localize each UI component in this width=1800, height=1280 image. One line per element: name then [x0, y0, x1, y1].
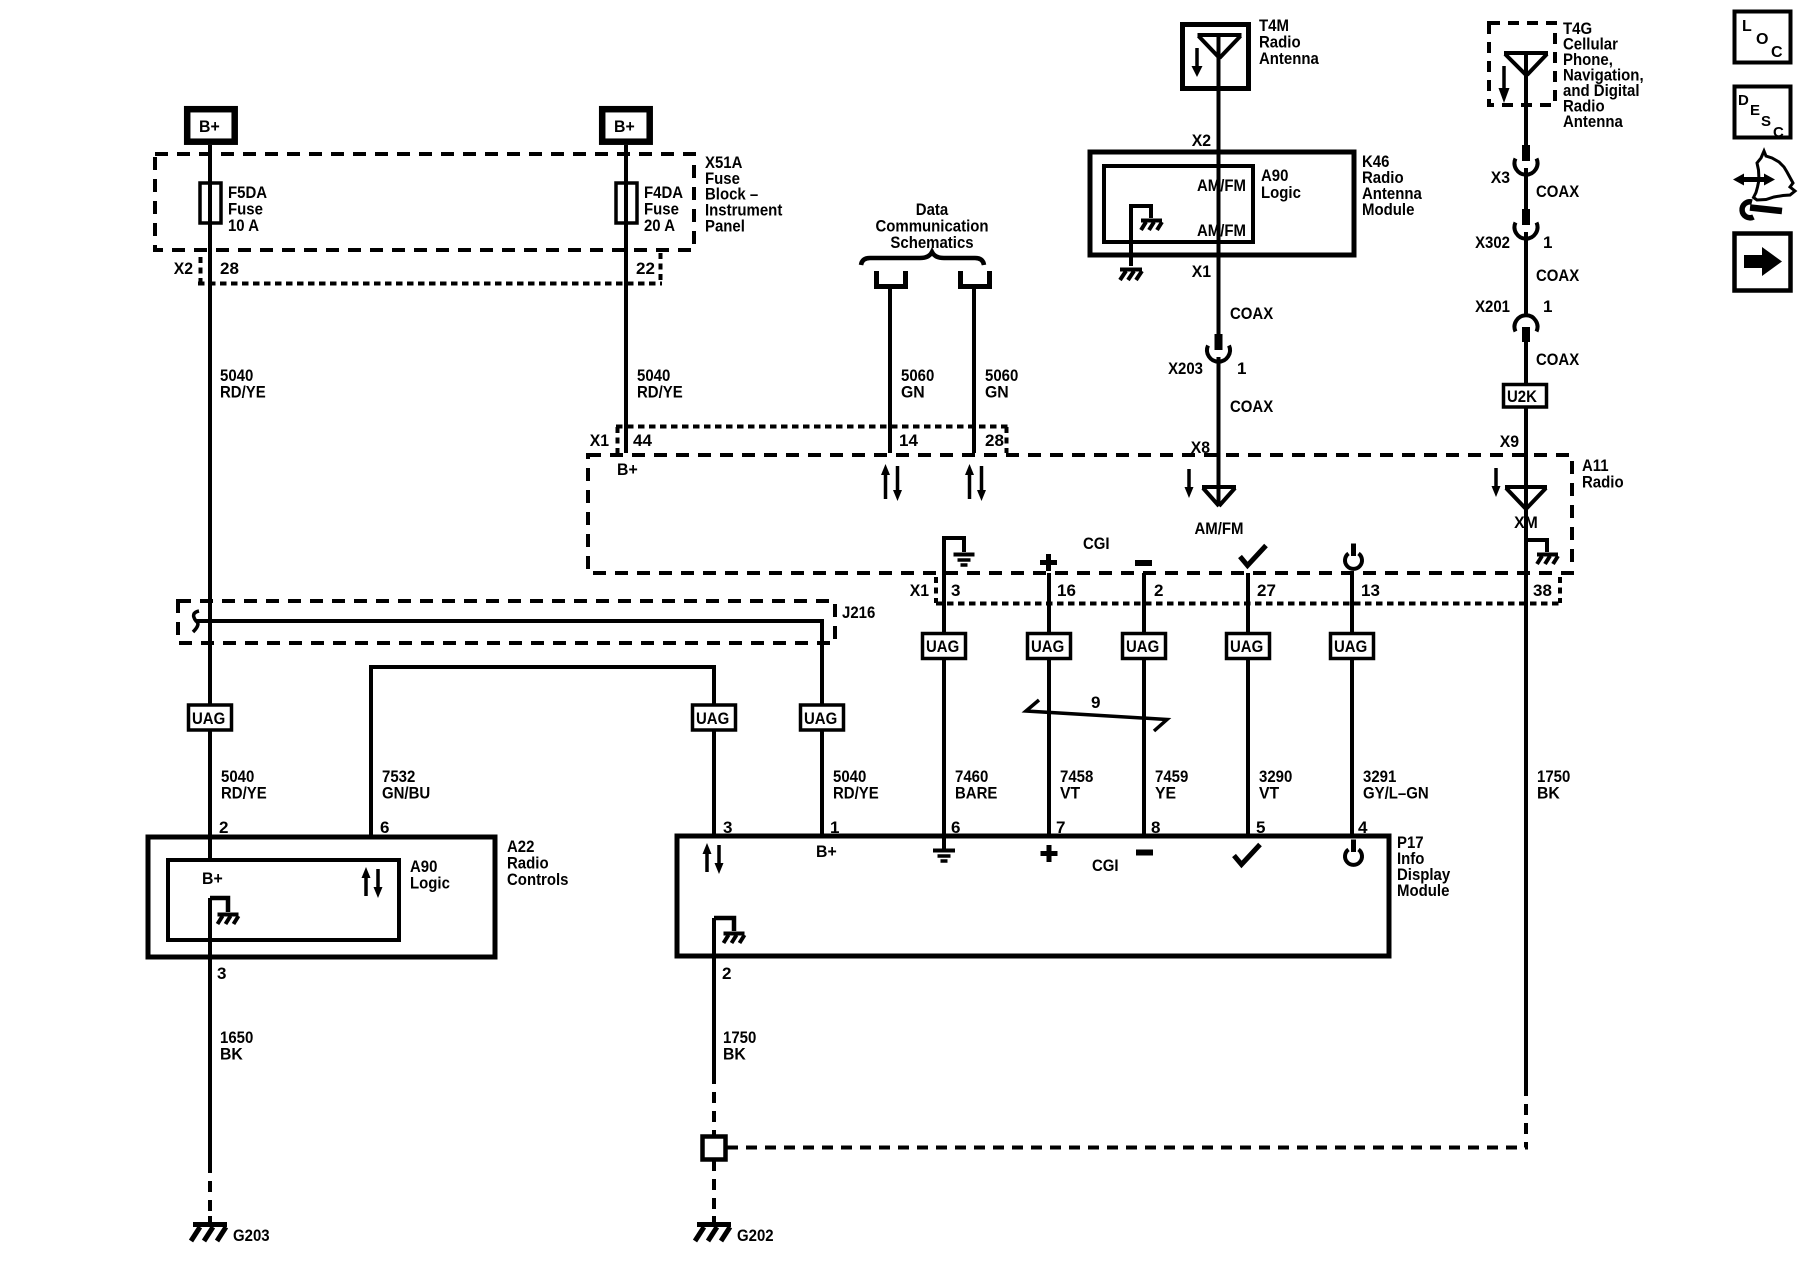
antenna T4M arrow [1192, 48, 1203, 77]
svg-text:4: 4 [1358, 818, 1368, 837]
connector X2 strip (fuse block bottom) [198, 253, 662, 284]
svg-text:XM: XM [1514, 513, 1538, 532]
svg-text:27: 27 [1257, 581, 1276, 600]
label connector X203 [1168, 359, 1246, 378]
connector X3 coax [1515, 145, 1538, 175]
wire 5040 RD/YE right (B+ to radio pin 44) [624, 145, 628, 453]
label AM/FM antenna [1195, 519, 1244, 538]
svg-text:Module: Module [1362, 200, 1414, 219]
label wire 1750 BK lower [723, 1028, 756, 1064]
label COAX lower (X203-X8) [1230, 397, 1274, 416]
svg-text:VT: VT [1060, 784, 1081, 803]
arrow inside P17 (bidirectional data) [703, 843, 724, 874]
svg-text:BK: BK [220, 1045, 243, 1064]
label B+ pin 44 [617, 460, 638, 479]
svg-text:8: 8 [1151, 818, 1160, 837]
antenna T4M box [1183, 25, 1249, 89]
power B+ terminal 1 [187, 109, 235, 142]
label wire 7459 YE [1155, 767, 1188, 803]
minus symbol radio CGI [1135, 560, 1152, 566]
ground symbol inside P17 pin 6 (earth style) [933, 836, 955, 861]
label G202 [737, 1226, 774, 1245]
svg-text:X203: X203 [1168, 359, 1203, 378]
svg-text:S: S [1761, 113, 1771, 130]
svg-text:28: 28 [220, 259, 239, 278]
svg-text:G203: G203 [233, 1226, 270, 1245]
connector UAG box wire to P17 pin 1 [801, 705, 844, 730]
wire 3291 GY/L-GN radio pin 13 to P17 pin 4 [1350, 573, 1354, 836]
svg-text:2: 2 [219, 818, 228, 837]
wire coax T4G antenna to U2K to radio X9 and 1750 BK to pin 38 [1524, 53, 1528, 1085]
svg-text:J216: J216 [842, 603, 875, 622]
svg-text:B+: B+ [614, 117, 635, 136]
label X1 K46 [1192, 262, 1211, 281]
label K46 module [1362, 152, 1422, 219]
svg-text:X2: X2 [174, 259, 193, 278]
svg-text:B+: B+ [199, 117, 220, 136]
svg-text:UAG: UAG [804, 709, 837, 728]
label connector X1 radio bottom pins [910, 581, 1552, 600]
data link connector bracket left [877, 271, 906, 287]
svg-text:C: C [1771, 44, 1783, 61]
splice J216 dashed outline [178, 601, 835, 643]
antenna T4G symbol [1504, 53, 1548, 75]
label CGI inside P17 [1092, 856, 1119, 875]
svg-text:D: D [1738, 92, 1749, 109]
svg-text:RD/YE: RD/YE [221, 784, 267, 803]
label COAX (X302-X201) [1536, 266, 1580, 285]
svg-text:RD/YE: RD/YE [833, 784, 879, 803]
svg-text:X2: X2 [1192, 131, 1211, 150]
svg-text:CGI: CGI [1083, 534, 1110, 553]
label A22 pin 3 [217, 964, 226, 983]
data link connector bracket right [961, 271, 990, 287]
label XM antenna [1514, 513, 1538, 532]
icon double arrow [1733, 174, 1775, 186]
label P17 pin 2 [722, 964, 731, 983]
svg-text:Antenna: Antenna [1563, 112, 1623, 131]
svg-text:7: 7 [1056, 818, 1065, 837]
label wire 5060 GN left [901, 366, 934, 402]
label X9 [1500, 432, 1519, 451]
icon wrench [1742, 202, 1782, 218]
svg-text:X302: X302 [1475, 233, 1510, 252]
arrow at radio pin 28 (bidirectional data) [965, 464, 986, 501]
svg-text:1: 1 [1543, 297, 1552, 316]
icon LOC box [1735, 12, 1791, 63]
label connector X1 radio top pins [590, 431, 1004, 450]
svg-text:X1: X1 [910, 581, 929, 600]
connector UAG box wire 7459 [1123, 634, 1166, 659]
svg-text:Logic: Logic [1261, 183, 1301, 202]
svg-text:COAX: COAX [1230, 397, 1274, 416]
connector UAG box wire 3290 [1227, 634, 1270, 659]
svg-text:GY/L–GN: GY/L–GN [1363, 784, 1429, 803]
svg-text:Logic: Logic [410, 874, 450, 893]
svg-text:CGI: CGI [1092, 856, 1119, 875]
label wire 5040 RD/YE lower left [221, 767, 267, 803]
svg-text:Controls: Controls [507, 870, 569, 889]
svg-text:16: 16 [1057, 581, 1076, 600]
ground hook inside K46 [1131, 206, 1162, 230]
label B+ inside P17 [816, 842, 837, 861]
svg-text:1: 1 [1543, 233, 1552, 252]
svg-text:X201: X201 [1475, 297, 1510, 316]
svg-text:Radio: Radio [1582, 473, 1624, 492]
svg-text:VT: VT [1259, 784, 1280, 803]
power symbol radio [1345, 544, 1362, 569]
svg-text:Panel: Panel [705, 217, 745, 236]
connector UAG box wire to P17 pin 3 [693, 705, 736, 730]
antenna AM/FM symbol inside radio [1202, 487, 1236, 506]
ground hook at radio pin 38 (XM side) [1526, 540, 1558, 564]
wire 1750 BK P17 pin 2 [712, 918, 716, 1216]
label X8 [1191, 438, 1210, 457]
module A90 logic inner outline (K46) [1104, 166, 1253, 242]
connector UAG box wire 5040 left [189, 705, 232, 730]
wire splice J216 to P17 pin 1 [196, 621, 822, 836]
connector UAG box wire 7460 [923, 634, 966, 659]
device U2K box [1504, 385, 1547, 408]
label CGI radio [1083, 534, 1110, 553]
label X51A fuse block [705, 153, 783, 236]
svg-text:O: O [1756, 31, 1768, 48]
wire 7458 VT radio pin 16 to P17 pin 7 [1047, 573, 1051, 836]
module A22 outline [148, 837, 495, 957]
label A90 Logic (A22) [410, 857, 450, 893]
svg-text:C: C [1773, 124, 1784, 141]
wire coax T4M antenna to K46 to radio X8 [1217, 36, 1221, 505]
svg-text:COAX: COAX [1536, 182, 1580, 201]
label COAX upper (X1-X203) [1230, 304, 1274, 323]
ground below K46 [1120, 225, 1142, 280]
svg-text:X3: X3 [1491, 168, 1510, 187]
label wire 5060 GN right [985, 366, 1018, 402]
svg-text:Module: Module [1397, 881, 1449, 900]
svg-text:6: 6 [380, 818, 389, 837]
ground G202 [695, 1216, 731, 1241]
svg-text:20 A: 20 A [644, 216, 675, 235]
svg-text:UAG: UAG [1031, 637, 1064, 656]
svg-text:6: 6 [951, 818, 960, 837]
svg-text:B+: B+ [816, 842, 837, 861]
minus symbol P17 [1136, 850, 1153, 856]
label A90 Logic (K46) [1261, 166, 1301, 202]
svg-text:B+: B+ [617, 460, 638, 479]
svg-text:E: E [1750, 102, 1760, 119]
arrow at radio pin 14 (bidirectional data) [881, 464, 902, 501]
svg-text:38: 38 [1533, 581, 1552, 600]
connector X1 strip (radio top, pins 44/14/28) [616, 427, 1008, 454]
check symbol P17 [1234, 845, 1260, 865]
svg-text:G202: G202 [737, 1226, 774, 1245]
label 9 twisted pair [1091, 693, 1100, 712]
label wire 1650 BK [220, 1028, 253, 1064]
wire 5060 GN left [888, 286, 892, 453]
wire A22 pin 6 to P17 pin 3 (7532) [371, 667, 714, 837]
svg-text:AM/FM: AM/FM [1197, 176, 1246, 195]
svg-text:AM/FM: AM/FM [1195, 519, 1244, 538]
label COAX (X201-U2K) [1536, 350, 1580, 369]
arrow at AM/FM antenna [1185, 469, 1194, 498]
svg-text:B+: B+ [202, 869, 223, 888]
fuse F5DA [200, 183, 267, 235]
label wire 7460 BARE [955, 767, 997, 803]
svg-text:BK: BK [723, 1045, 746, 1064]
svg-text:X8: X8 [1191, 438, 1210, 457]
connector UAG box wire 7458 [1028, 634, 1071, 659]
label G203 [233, 1226, 270, 1245]
svg-text:U2K: U2K [1507, 387, 1538, 406]
svg-text:YE: YE [1155, 784, 1176, 803]
label P17 pins top [723, 818, 1368, 837]
label A22 Radio Controls [507, 837, 569, 889]
radio A11 dashed outline [588, 455, 1572, 573]
power B+ terminal 2 [602, 109, 650, 142]
svg-text:1: 1 [830, 818, 839, 837]
label wire 1750 BK right [1537, 767, 1570, 803]
label connector X201 [1475, 297, 1552, 316]
ground G203 [191, 1216, 227, 1241]
connector junction square (1750 BK) [703, 1137, 726, 1160]
label P17 Info Display Module [1397, 833, 1451, 900]
svg-text:BARE: BARE [955, 784, 997, 803]
label connector X302 [1475, 233, 1552, 252]
fuse F4DA [616, 183, 683, 235]
svg-text:GN: GN [901, 383, 925, 402]
connector X302 coax [1515, 209, 1538, 239]
icon fender outline [1754, 151, 1796, 200]
label COAX (X3-X302) [1536, 182, 1580, 201]
wire 7459 YE radio pin 2 to P17 pin 8 [1142, 573, 1146, 836]
check symbol radio [1240, 546, 1266, 566]
antenna T4M symbol [1198, 35, 1242, 89]
connector X203 coax [1207, 334, 1230, 362]
svg-text:L: L [1742, 18, 1752, 35]
wire 5040 RD/YE left (B+ to A22 pin 2 to pin 3) [208, 145, 212, 1162]
svg-text:22: 22 [636, 259, 655, 278]
wire 1750 BK dashed junction link [727, 1085, 1528, 1148]
svg-text:3: 3 [723, 818, 732, 837]
label wire 3291 GY/L-GN [1363, 767, 1429, 803]
svg-text:28: 28 [985, 431, 1004, 450]
ground hook inside A22 [210, 898, 239, 924]
label T4G Cellular antenna [1563, 19, 1644, 131]
svg-text:9: 9 [1091, 693, 1100, 712]
power symbol P17 [1345, 840, 1362, 865]
plus symbol P17 [1041, 845, 1058, 862]
svg-text:UAG: UAG [696, 709, 729, 728]
label splice J216 [842, 603, 875, 622]
label A22 pins 2 and 6 [219, 818, 389, 837]
module P17 outline [677, 836, 1389, 956]
connector X201 coax [1515, 315, 1538, 342]
svg-text:3: 3 [951, 581, 960, 600]
svg-text:AM/FM: AM/FM [1197, 221, 1246, 240]
svg-text:44: 44 [633, 431, 652, 450]
svg-text:Schematics: Schematics [890, 233, 973, 252]
svg-text:RD/YE: RD/YE [637, 383, 683, 402]
svg-text:COAX: COAX [1230, 304, 1274, 323]
svg-text:2: 2 [1154, 581, 1163, 600]
label T4M Radio Antenna [1259, 16, 1319, 68]
antenna XM symbol inside radio [1505, 487, 1547, 509]
label wire 5040 RD/YE (P17 pin 1) [833, 767, 879, 803]
icon DESC box [1735, 87, 1791, 142]
wire radio pin 3 to P17 pin 6 [942, 538, 946, 836]
svg-text:X9: X9 [1500, 432, 1519, 451]
wire 5060 GN right [972, 286, 976, 453]
svg-text:13: 13 [1361, 581, 1380, 600]
connector UAG box wire 3291 [1331, 634, 1374, 659]
label A11 Radio [1582, 456, 1624, 492]
ground at radio pin 3 (earth style) [944, 538, 975, 565]
fuse block X51A dashed outline [155, 154, 694, 250]
svg-text:UAG: UAG [1230, 637, 1263, 656]
label connector X2 pins [174, 259, 655, 278]
label AM/FM pins K46 [1197, 176, 1246, 240]
svg-text:GN/BU: GN/BU [382, 784, 430, 803]
wire 1650 BK dashed to G203 [208, 1162, 212, 1216]
svg-text:X1: X1 [1192, 262, 1211, 281]
connector X1 strip (radio bottom, pins 3/16/2/27/13/38) [936, 577, 1562, 604]
label wire 3290 VT [1259, 767, 1292, 803]
svg-text:GN: GN [985, 383, 1009, 402]
svg-text:COAX: COAX [1536, 266, 1580, 285]
splice curl J216 [193, 611, 199, 632]
svg-text:Antenna: Antenna [1259, 49, 1319, 68]
svg-text:UAG: UAG [1126, 637, 1159, 656]
svg-text:1: 1 [1237, 359, 1246, 378]
icon arrow box [1735, 234, 1791, 291]
wire 3290 VT radio pin 27 to P17 pin 5 [1246, 573, 1250, 836]
antenna T4G dashed outline [1489, 23, 1555, 105]
arrow at XM antenna [1492, 468, 1501, 497]
svg-text:14: 14 [899, 431, 918, 450]
svg-text:COAX: COAX [1536, 350, 1580, 369]
arrow inside A22 (bidirectional data) [362, 867, 383, 898]
svg-text:UAG: UAG [192, 709, 225, 728]
label B+ inside A22 [202, 869, 223, 888]
svg-text:RD/YE: RD/YE [220, 383, 266, 402]
label Data Communication Schematics [876, 200, 989, 252]
label wire 5040 RD/YE right upper [637, 366, 683, 402]
ground hook inside P17 [714, 918, 745, 943]
plus symbol radio CGI [1040, 554, 1057, 571]
label wire 7532 GN/BU [382, 767, 430, 803]
svg-text:UAG: UAG [926, 637, 959, 656]
svg-text:2: 2 [722, 964, 731, 983]
svg-text:BK: BK [1537, 784, 1560, 803]
svg-text:3: 3 [217, 964, 226, 983]
module K46 outline [1090, 152, 1354, 255]
antenna T4G arrow [1499, 66, 1510, 103]
label X2 K46 [1192, 131, 1211, 150]
label connector X3 [1491, 168, 1510, 187]
module A90 logic inner outline (A22) [168, 860, 399, 940]
label wire 5040 RD/YE left upper [220, 366, 266, 402]
label wire 7458 VT [1060, 767, 1093, 803]
svg-text:5: 5 [1256, 818, 1265, 837]
brace Data Communication Schematics [861, 252, 984, 265]
svg-text:10 A: 10 A [228, 216, 259, 235]
twisted pair marker 9 [1026, 700, 1167, 731]
svg-text:UAG: UAG [1334, 637, 1367, 656]
svg-text:X1: X1 [590, 431, 609, 450]
